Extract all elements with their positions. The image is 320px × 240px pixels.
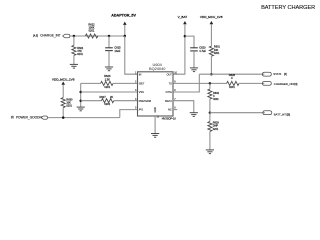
- svg-text:[4]: [4]: [284, 73, 287, 76]
- node junction V_BAT/C620: [184, 35, 187, 38]
- svg-text:[4,5]: [4,5]: [33, 35, 38, 38]
- svg-text:10uF: 10uF: [114, 49, 120, 53]
- svg-text:STAT1: STAT1: [273, 72, 282, 76]
- svg-text:0201: 0201: [229, 85, 235, 89]
- svg-text:HVSSOP-10: HVSSOP-10: [162, 118, 177, 121]
- resistor R622: [85, 34, 97, 38]
- capacitor C620: [190, 47, 198, 49]
- svg-text:OUT: OUT: [167, 73, 173, 76]
- svg-text:VDD_MCU_1V8: VDD_MCU_1V8: [200, 15, 223, 19]
- resistor R601: [209, 46, 213, 56]
- resistor R629: [209, 113, 211, 122]
- power symbol VDD_MCU_1V8 left: [61, 82, 65, 85]
- svg-text:ADAPTOR_5V: ADAPTOR_5V: [111, 14, 136, 18]
- svg-text:BATT_NTC: BATT_NTC: [274, 112, 288, 116]
- svg-text:[6]: [6]: [287, 113, 290, 116]
- svg-text:ISET2: ISET2: [165, 100, 173, 103]
- wire VSS row: [79, 91, 82, 94]
- resistor R630: [61, 98, 65, 108]
- wire ISET row: [81, 82, 101, 84]
- power symbol VDD_MCU_1V8: [210, 21, 214, 24]
- capacitor C615: [108, 36, 110, 48]
- svg-text:0201: 0201: [104, 102, 110, 106]
- svg-text:NC: NC: [168, 109, 172, 112]
- node C junction BATT_NTC: [209, 111, 212, 114]
- svg-text:1.5K: 1.5K: [105, 77, 111, 81]
- svg-text:VDD_MCU_1V8: VDD_MCU_1V8: [52, 78, 75, 82]
- wire riser to /CHG pin: [173, 74, 199, 92]
- ground under R629: [206, 150, 214, 154]
- connector BATT_NTC: [263, 111, 272, 115]
- node B junction TS/R632: [209, 82, 212, 85]
- svg-text:GND: GND: [153, 107, 157, 113]
- wire ADAPTOR_5V stem: [124, 25, 126, 36]
- wire main bus y=36: [70, 35, 125, 37]
- node junction bus/C615: [108, 35, 111, 38]
- svg-text:CHARGER_OFF: CHARGER_OFF: [274, 82, 295, 86]
- svg-text:V_BAT: V_BAT: [178, 15, 188, 19]
- svg-text:POWER_GOODN: POWER_GOODN: [16, 115, 43, 119]
- connector CHARGER_OFF: [262, 82, 271, 86]
- node junction R630/POWER_GOODN: [62, 116, 64, 119]
- ground pin 11: [151, 134, 159, 138]
- node junction bus/rail: [124, 35, 127, 38]
- resistor R628: [227, 81, 239, 85]
- svg-text:VSS: VSS: [139, 91, 144, 94]
- svg-text:ISET: ISET: [139, 83, 145, 86]
- resistor R627: [101, 99, 113, 103]
- resistor R632: [209, 83, 211, 88]
- svg-text:0201: 0201: [104, 85, 110, 89]
- pin stub NC: [173, 109, 177, 111]
- wire V_BAT rail to OUT pin: [173, 24, 185, 74]
- ground ISET2: [190, 113, 198, 117]
- svg-text:0201: 0201: [89, 28, 95, 32]
- pin stub GND 11: [154, 116, 156, 133]
- wire PRETERM row: [79, 99, 82, 102]
- connector STAT1: [262, 72, 271, 76]
- pin stub ISET2 to ground: [173, 101, 194, 113]
- ground under C620: [190, 68, 198, 72]
- wire branch to C620: [185, 36, 194, 48]
- svg-text:CHARGE_INT: CHARGE_INT: [40, 34, 61, 38]
- power symbol V_BAT: [183, 21, 187, 24]
- wire STAT1 net: [199, 73, 264, 75]
- ground left resistor block: [77, 107, 85, 111]
- svg-text:PRETERM: PRETERM: [139, 100, 151, 103]
- IC U604 BQ24040 box: [138, 72, 174, 116]
- svg-text:TS: TS: [169, 83, 173, 86]
- svg-text:BATTERY CHARGER: BATTERY CHARGER: [261, 5, 315, 11]
- svg-text:2K: 2K: [110, 95, 113, 99]
- wire POWER_GOODN: [48, 117, 120, 119]
- svg-text:0201: 0201: [213, 98, 219, 101]
- ground under C615: [105, 67, 113, 71]
- resistor R621: [73, 36, 75, 45]
- wire left bus: [80, 83, 82, 107]
- svg-text:[4]: [4]: [295, 83, 298, 86]
- svg-text:0201: 0201: [214, 52, 220, 55]
- svg-text:0201: 0201: [77, 53, 83, 56]
- wire BATT_NTC net: [210, 112, 265, 114]
- wire riser to /PG pin: [120, 110, 138, 118]
- resistor R626: [101, 81, 113, 85]
- svg-text:/CHG: /CHG: [166, 91, 172, 94]
- wire TS net: [173, 82, 227, 84]
- svg-text:0201: 0201: [213, 128, 219, 131]
- wire rail to IN pin: [125, 36, 138, 74]
- ground under R621: [70, 64, 78, 68]
- node junction bus/R621: [73, 35, 76, 38]
- svg-text:/PG: /PG: [139, 109, 143, 112]
- svg-text:BQ24040: BQ24040: [149, 66, 166, 71]
- node A junction R601/STAT1: [210, 73, 213, 76]
- svg-text:0201: 0201: [66, 105, 72, 108]
- svg-text:R627: R627: [99, 95, 106, 99]
- svg-text:IN: IN: [139, 73, 142, 76]
- power symbol ADAPTOR_5V: [123, 22, 127, 25]
- svg-text:4.7uF: 4.7uF: [199, 49, 206, 53]
- svg-text:[4]: [4]: [11, 116, 14, 119]
